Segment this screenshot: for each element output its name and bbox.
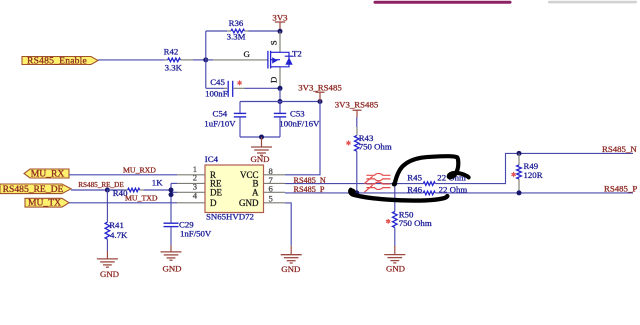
node R41 junction bbox=[105, 188, 110, 193]
port MU_RX bbox=[24, 169, 69, 178]
node R43/P junction bbox=[354, 190, 359, 195]
svg-text:MU_TX: MU_TX bbox=[28, 198, 61, 209]
svg-text:MU_RXD: MU_RXD bbox=[123, 166, 156, 175]
svg-text:DE: DE bbox=[210, 188, 222, 198]
svg-text:T2: T2 bbox=[292, 49, 302, 59]
IC IC4 SN65HVD72 bbox=[205, 165, 264, 213]
wire VCC (rail to pin 8) bbox=[285, 102, 320, 175]
port RS485_RE_DE bbox=[0, 184, 71, 194]
svg-text:MU_TXD: MU_TXD bbox=[125, 194, 158, 203]
svg-text:R46: R46 bbox=[407, 185, 422, 195]
svg-text:120R: 120R bbox=[524, 170, 543, 180]
resistor R42 3.3K bbox=[165, 59, 168, 61]
ground (R41) bbox=[106, 251, 108, 259]
wire RS485_P bbox=[285, 192, 423, 194]
resistor R49 120R bbox=[518, 153, 520, 165]
svg-text:GND: GND bbox=[239, 198, 259, 208]
svg-text:6: 6 bbox=[269, 184, 274, 194]
svg-text:C45: C45 bbox=[210, 77, 225, 87]
wire RS485_Enable to R42 bbox=[98, 59, 165, 61]
svg-text:1K: 1K bbox=[152, 178, 163, 188]
svg-text:3V3: 3V3 bbox=[272, 12, 288, 22]
resistor R36 3.3M bbox=[206, 30, 227, 32]
svg-text:5: 5 bbox=[269, 193, 273, 203]
svg-text:S: S bbox=[268, 40, 278, 45]
wire RE/DE tie vertical bbox=[170, 183, 172, 223]
node cap gnd junction bbox=[259, 135, 264, 140]
body diode of T2 bbox=[280, 52, 289, 67]
node R49 bottom junction bbox=[517, 190, 522, 195]
wire MU_TX to pin 4 bbox=[69, 202, 177, 204]
svg-text:3V3_RS485: 3V3_RS485 bbox=[298, 82, 342, 92]
node drain junction bbox=[278, 86, 283, 91]
resistor R46 22 Ohm bbox=[423, 191, 435, 195]
wire R42 to gate node bbox=[193, 59, 206, 61]
diff pair directive (P) bbox=[366, 182, 390, 184]
svg-text:GND: GND bbox=[100, 269, 119, 279]
svg-text:IC4: IC4 bbox=[205, 154, 219, 164]
svg-text:RS485_P: RS485_P bbox=[604, 184, 637, 194]
svg-text:100nF/16V: 100nF/16V bbox=[279, 118, 320, 128]
port MU_TX bbox=[25, 198, 69, 207]
svg-text:GND: GND bbox=[281, 264, 300, 274]
asterisk R43 bbox=[347, 141, 350, 145]
wire 3V3_RS485 rail bbox=[240, 101, 320, 103]
resistor R45 22 Ohm bbox=[423, 182, 435, 186]
transistor T2 (P-MOSFET) bbox=[279, 31, 281, 52]
svg-text:4.7K: 4.7K bbox=[110, 230, 128, 240]
node rail/power junction bbox=[318, 99, 323, 104]
resistor R43 750 Ohm bbox=[356, 127, 358, 136]
asterisk R50 bbox=[386, 219, 389, 223]
ground (C29) bbox=[170, 245, 172, 252]
svg-text:G: G bbox=[244, 49, 251, 59]
wire drain down to rail bbox=[279, 88, 281, 101]
wire MU_RX to pin 1 bbox=[69, 174, 177, 176]
svg-text:R45: R45 bbox=[407, 173, 422, 183]
capacitor C54 1uF/10V bbox=[239, 102, 241, 114]
svg-text:3.3M: 3.3M bbox=[227, 32, 246, 42]
capacitor C45 100nF bbox=[206, 87, 224, 89]
toolbar fragment purple bbox=[374, 1, 512, 4]
svg-text:RS485_N: RS485_N bbox=[602, 144, 637, 154]
asterisk R49 bbox=[512, 173, 515, 177]
svg-text:SN65HVD72: SN65HVD72 bbox=[206, 211, 254, 221]
svg-text:3V3_RS485: 3V3_RS485 bbox=[335, 99, 379, 109]
svg-text:C53: C53 bbox=[290, 109, 305, 119]
wire pin5 to ground bbox=[285, 203, 291, 246]
node gate junction bbox=[203, 57, 208, 62]
svg-text:RS485_Enable: RS485_Enable bbox=[27, 55, 87, 66]
svg-text:A: A bbox=[252, 188, 259, 198]
annotation marker upper stroke bbox=[395, 156, 469, 184]
ground (C54/C53) bbox=[261, 137, 263, 147]
resistor R50 750 Ohm bbox=[394, 184, 396, 212]
annotation marker lower stroke bbox=[350, 190, 447, 201]
svg-text:R42: R42 bbox=[164, 47, 179, 57]
svg-text:GND: GND bbox=[250, 154, 269, 164]
port RS485_Enable bbox=[22, 57, 98, 65]
node R50/N junction bbox=[392, 181, 397, 186]
node R49 top junction bbox=[517, 151, 522, 156]
svg-text:D: D bbox=[210, 198, 217, 208]
wire RS485_N bbox=[285, 183, 423, 185]
svg-text:100nF: 100nF bbox=[205, 88, 228, 98]
resistor R41 4.7K bbox=[106, 190, 108, 222]
wire left vertical (gate node to R36 and C45) bbox=[205, 31, 207, 88]
svg-text:C54: C54 bbox=[213, 109, 228, 119]
node 3V3/R36/source junction bbox=[278, 29, 283, 34]
svg-text:RS485_RE_DE: RS485_RE_DE bbox=[3, 184, 64, 195]
svg-text:750 Ohm: 750 Ohm bbox=[359, 142, 392, 152]
toolbar fragment gray bbox=[548, 1, 637, 4]
ground (IC pin 5) bbox=[290, 246, 292, 255]
capacitor C29 1nF/50V bbox=[170, 222, 172, 224]
svg-text:GND: GND bbox=[386, 264, 405, 274]
capacitor C53 100nF/16V bbox=[279, 102, 281, 114]
ground (R50) bbox=[394, 246, 396, 255]
svg-text:MU_RX: MU_RX bbox=[31, 169, 65, 180]
resistor R40 1K bbox=[107, 189, 124, 191]
svg-text:4: 4 bbox=[193, 191, 198, 201]
node drain/rail junction bbox=[278, 99, 283, 104]
diff pair directive (N) bbox=[366, 173, 390, 175]
svg-text:3.3K: 3.3K bbox=[165, 62, 183, 72]
wire P after R46 bbox=[435, 192, 633, 194]
wire RS485_RE_DE to R40 bbox=[71, 189, 107, 191]
wire gate node to T2 gate bbox=[206, 59, 213, 61]
svg-text:GND: GND bbox=[162, 264, 181, 274]
svg-text:R36: R36 bbox=[229, 18, 244, 28]
svg-text:D: D bbox=[268, 77, 278, 83]
svg-text:R41: R41 bbox=[109, 220, 124, 230]
svg-text:1uF/10V: 1uF/10V bbox=[204, 118, 236, 128]
svg-text:1nF/50V: 1nF/50V bbox=[180, 229, 212, 239]
asterisk C45 bbox=[238, 81, 241, 85]
node RE/DE junctions bbox=[169, 188, 174, 193]
svg-text:750 Ohm: 750 Ohm bbox=[399, 218, 432, 228]
wire cap bottom rail bbox=[240, 136, 280, 138]
wire N after R45 bbox=[435, 153, 633, 183]
